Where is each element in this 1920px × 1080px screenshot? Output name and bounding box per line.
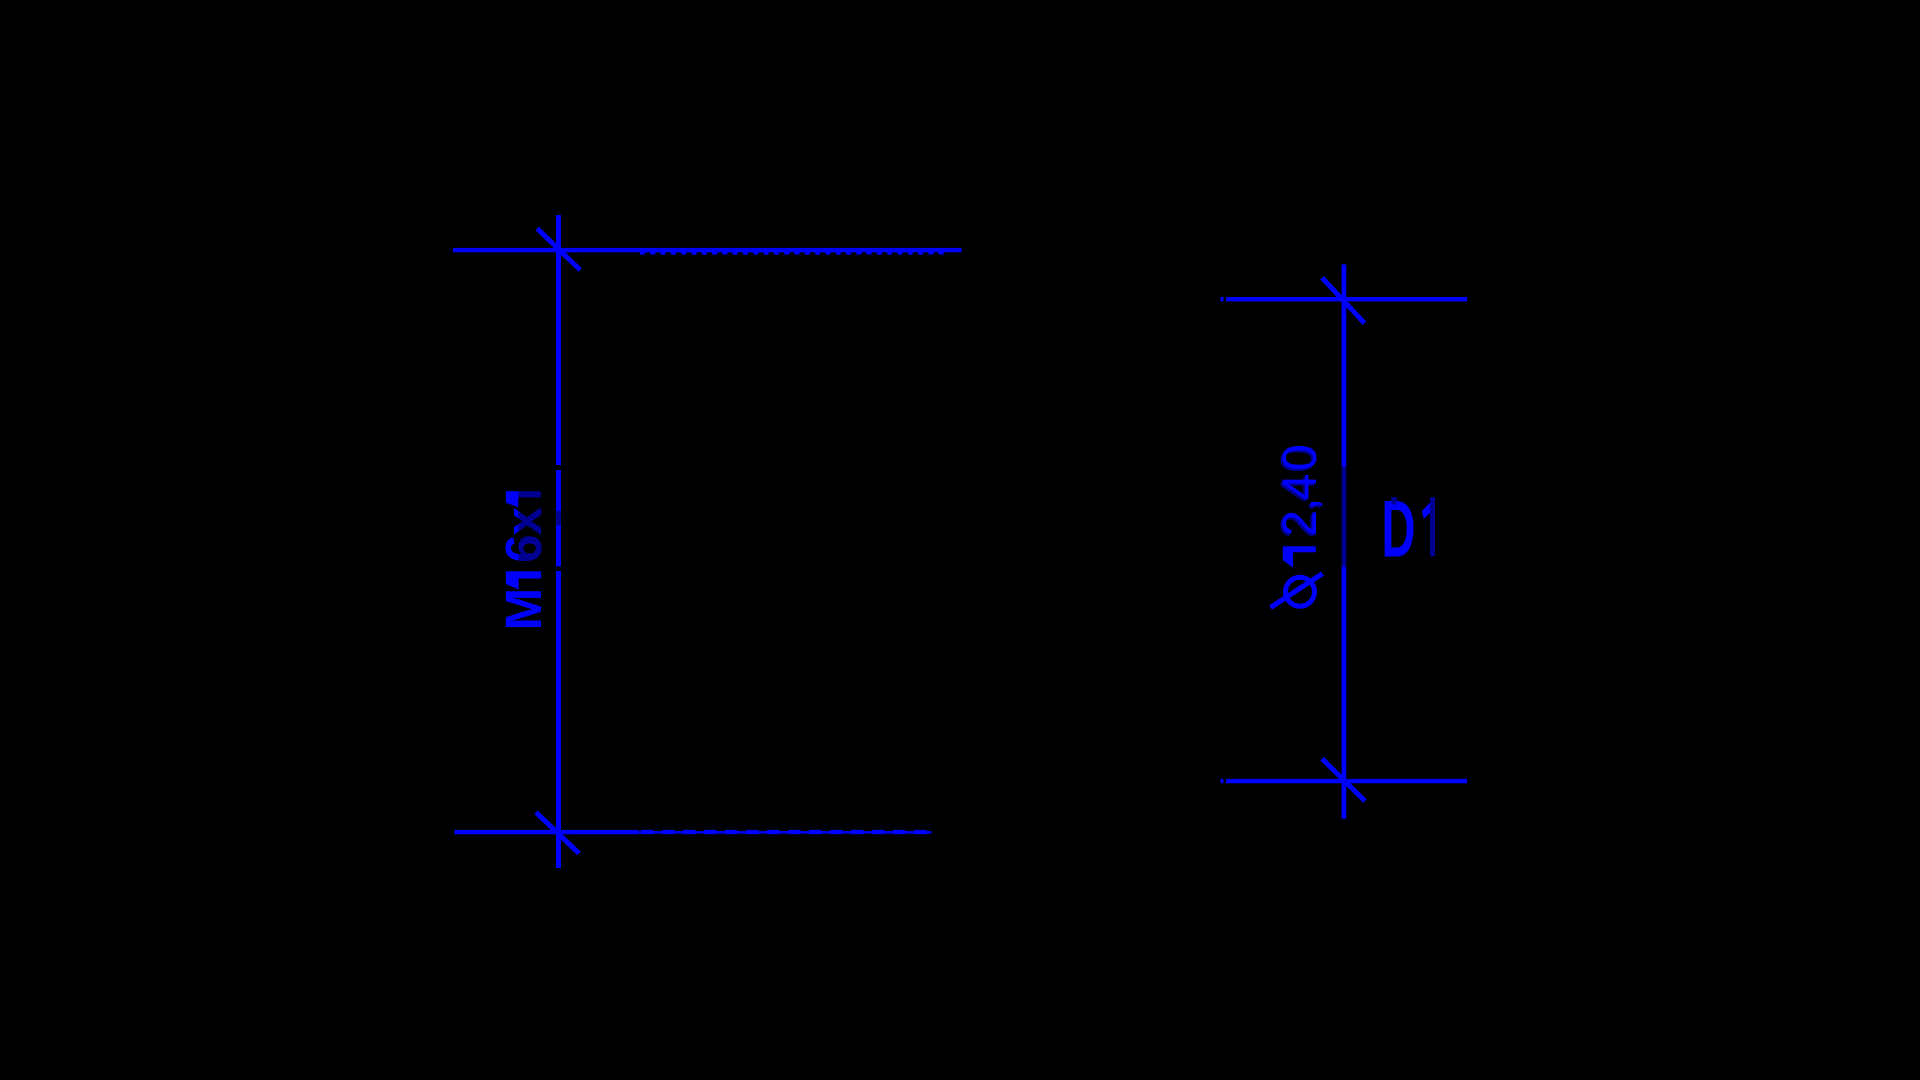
dimension line right dark middle segment	[1342, 466, 1347, 566]
digit 1 (upper) of M16x1: stem dark part	[518, 491, 540, 497]
digit 1 (upper) of M16x1: stem bright part	[506, 491, 519, 497]
extension line top-right	[1226, 297, 1467, 301]
extension line top-right leading dot	[1221, 297, 1224, 301]
extension line bottom-left thin continuation	[639, 831, 932, 834]
svg-text:2,40: 2,40	[1274, 444, 1327, 536]
svg-text:D: D	[1382, 484, 1416, 574]
label 1 dark: stem	[1430, 497, 1435, 556]
dashed companion below top-left extension line	[640, 252, 946, 255]
extension line bottom-right leading dot	[1221, 779, 1224, 783]
diameter symbol circle	[1286, 577, 1315, 606]
digit 1 (upper) of M16x1: flag	[506, 497, 518, 507]
tick mark bottom-left	[536, 812, 579, 853]
tick mark bottom-right	[1322, 759, 1365, 801]
diameter symbol slash	[1271, 574, 1323, 608]
dark notch in D top bar	[1391, 497, 1398, 505]
dimension line left dark segment	[556, 511, 561, 525]
thick dashes over thin continuation	[641, 830, 932, 834]
dimension line right (vertical) bright segment upper	[1342, 264, 1347, 466]
extension line top-left (M16x1 dim, first extension line)	[453, 248, 962, 252]
digit 1 of 12,40: flag	[1283, 552, 1293, 568]
digit 1 of 12,40: stem	[1283, 546, 1316, 552]
extension line bottom-right	[1226, 779, 1467, 783]
digit 1 (lower) of M16x1: flag	[506, 578, 519, 589]
tick mark top-right	[1322, 278, 1365, 324]
extension line bottom-left thick part	[454, 830, 638, 834]
tick mark top-left	[537, 229, 580, 271]
dimension line right bright segment lower	[1342, 567, 1347, 819]
dimension line left (vertical) bright segments	[556, 215, 561, 465]
label 1: bright flag	[1422, 503, 1430, 519]
digit 1 (lower) of M16x1: stem	[506, 571, 541, 578]
